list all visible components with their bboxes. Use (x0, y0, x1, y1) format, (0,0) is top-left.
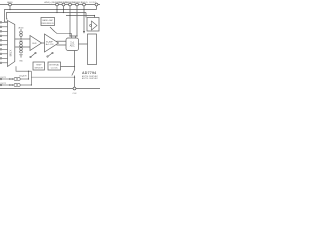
pga triangle (45, 34, 59, 52)
pin drop x84 (83, 6, 85, 31)
top pin labels (7, 1, 97, 4)
svg-text:Σ-Δ: Σ-Δ (70, 41, 74, 44)
svg-text:IN-AMP: IN-AMP (46, 41, 54, 44)
chip bottom edge (0, 88, 100, 90)
mux trapezoid (8, 21, 15, 67)
pin drop x77 (76, 6, 78, 36)
burnout current bottom (20, 41, 23, 47)
pin drop x70 (69, 6, 71, 16)
clk pin (73, 87, 76, 90)
buf triangle (30, 36, 42, 51)
svg-text:SENSOR: SENSOR (34, 68, 43, 70)
wire B refin net (7, 13, 87, 20)
junction dots (9, 9, 95, 67)
svg-text:DVDD: DVDD (89, 2, 96, 4)
svg-text:AIN9(+): AIN9(+) (44, 1, 52, 4)
wire1 ain+ (15, 38, 30, 40)
bias wire (31, 76, 74, 78)
chip top edge (0, 4, 100, 6)
svg-text:AVDD: AVDD (7, 1, 13, 4)
serial interface box (88, 34, 97, 65)
svg-text:CLK: CLK (72, 93, 77, 95)
svg-text:BUF: BUF (32, 43, 37, 45)
svg-text:AVDD: AVDD (81, 1, 88, 4)
band-gap reference box (41, 18, 55, 26)
chop switch under pga (47, 52, 53, 57)
pin drop x96.5 (96, 6, 98, 10)
arrow into serial box (83, 31, 85, 34)
svg-text:INTERNAL: INTERNAL (49, 64, 60, 67)
temp sensor box (33, 62, 45, 70)
svg-text:AD7795: 16-BIT ADC: AD7795: 16-BIT ADC (82, 77, 99, 80)
svg-text:AD7794: AD7794 (82, 71, 96, 75)
svg-text:AVDD: AVDD (18, 27, 24, 30)
buffer triangle in box A (92, 21, 98, 30)
vbias symbol (19, 47, 24, 62)
iout1 row (0, 77, 29, 81)
pin drop x57 (56, 6, 58, 13)
adc out wire (79, 43, 88, 45)
iout2 row (0, 83, 31, 87)
mux to iout wire (16, 66, 31, 85)
bandgap arrow (50, 27, 55, 32)
wire2 ain- (15, 46, 30, 48)
pin circles top (9, 3, 98, 6)
svg-text:REFERENCE: REFERENCE (42, 23, 55, 25)
svg-text:TEMP: TEMP (36, 65, 42, 67)
chop switch under buf (30, 52, 36, 57)
pin drop x63.5 (63, 6, 65, 13)
svg-text:MUX: MUX (9, 50, 13, 57)
input ladder rungs (0, 22, 8, 64)
sigma-delta adc box (66, 38, 79, 51)
clock wires (61, 51, 75, 89)
wire C (66, 16, 95, 18)
box A ref buffer (87, 18, 99, 32)
wire B drop (85, 13, 87, 18)
svg-text:ADC: ADC (70, 45, 75, 48)
pin drop x10 avdd (9, 6, 11, 10)
wire A avdd net (5, 10, 97, 23)
pga out wires (57, 40, 67, 42)
svg-text:CLOCK: CLOCK (51, 68, 59, 70)
burnout current top (18, 27, 24, 39)
svg-text:BAND-GAP: BAND-GAP (42, 19, 53, 22)
ref jog into adc (70, 16, 77, 37)
ref wire to adc (55, 32, 72, 39)
internal clock box (48, 62, 61, 70)
svg-text:A=1-128: A=1-128 (46, 43, 55, 46)
inter-amp wire (42, 42, 45, 44)
